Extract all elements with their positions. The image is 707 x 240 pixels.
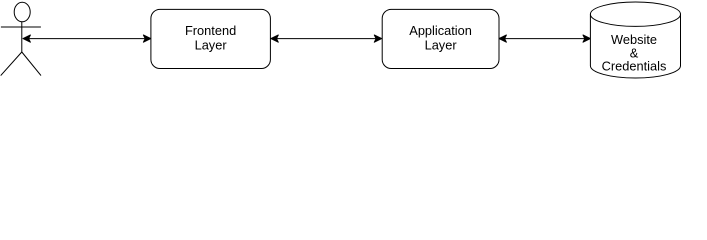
wire connector Application to database (double arrow) — [499, 35, 590, 42]
database cylinder Website & Credentials — [590, 2, 680, 78]
svg-text:Application: Application — [409, 23, 472, 38]
wire connector Frontend to Application (double arrow) — [271, 35, 382, 42]
svg-text:Credentials: Credentials — [602, 59, 667, 74]
svg-text:Layer: Layer — [425, 38, 458, 53]
svg-text:Layer: Layer — [195, 38, 228, 53]
actor (user stick figure) — [1, 2, 41, 75]
wire connector actor to Frontend Layer (double arrow) — [23, 35, 151, 42]
svg-text:Frontend: Frontend — [185, 23, 236, 38]
box Application Layer — [382, 9, 499, 68]
box Frontend Layer — [151, 9, 271, 68]
